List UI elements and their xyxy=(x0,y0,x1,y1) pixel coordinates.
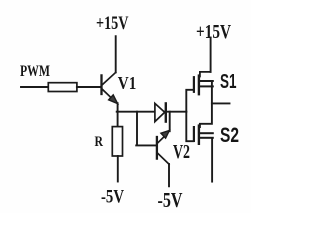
wire R to -5V xyxy=(117,156,119,182)
svg-text:+15V: +15V xyxy=(96,14,129,34)
wire diode cathode junction down to V2 emitter xyxy=(169,112,171,132)
wire S2 source down xyxy=(211,138,213,182)
wire V1 emitter down to node xyxy=(117,103,119,112)
svg-text:-5V: -5V xyxy=(101,187,124,208)
wire node to resistor R xyxy=(117,112,119,127)
wire gate bus with leads to S1/S2 gates xyxy=(186,90,193,141)
svg-text:V2: V2 xyxy=(173,142,190,163)
svg-text:-5V: -5V xyxy=(158,188,183,212)
resistor R xyxy=(112,127,122,156)
svg-text:+15V: +15V xyxy=(196,22,231,43)
svg-text:S2: S2 xyxy=(220,124,239,147)
wire PWM input lead xyxy=(21,86,48,88)
transistor V2 (PNP) xyxy=(157,130,170,164)
wire junction down to V2 base xyxy=(136,112,157,146)
transistor V1 (NPN) xyxy=(102,72,118,103)
wire V2 collector to -5V xyxy=(168,164,170,186)
wire S1 source to S2 drain xyxy=(200,81,212,127)
wire resistor to V1 base xyxy=(77,86,101,88)
svg-text:S1: S1 xyxy=(220,71,237,93)
resistor (base series resistor) xyxy=(48,83,77,92)
MOSFET S2 xyxy=(194,126,213,144)
MOSFET S1 xyxy=(194,72,213,94)
wire +15V right rail to S1 drain xyxy=(210,38,212,72)
wire output node stub xyxy=(212,102,230,104)
diode VD xyxy=(155,103,166,121)
wire main drive bus (emitter node to gate bus) xyxy=(117,111,187,113)
svg-text:V1: V1 xyxy=(118,73,137,93)
svg-text:R: R xyxy=(95,134,104,150)
wire +15V left rail drop to V1 collector xyxy=(115,36,117,72)
svg-text:PWM: PWM xyxy=(20,63,50,80)
